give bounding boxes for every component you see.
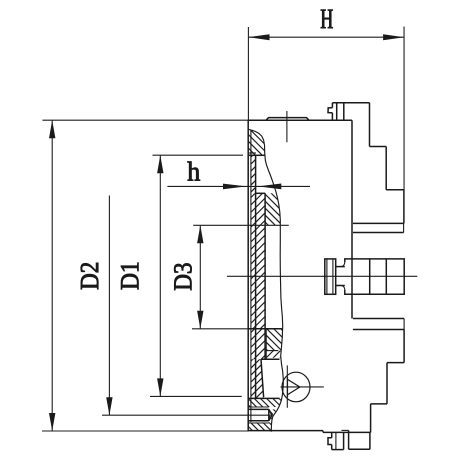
hub inner step line [266,350,278,352]
hub dimension arrowhead bottom [197,311,203,329]
dimension D1 line [108,196,110,416]
body right face upper [403,190,405,224]
body lower step 2 [371,403,387,405]
hub joint line [265,329,267,359]
bottom jaw notch top [342,429,349,431]
body OD band bump top [266,118,309,121]
dimension H line [249,36,404,38]
top jaw groove line 2 [343,103,345,120]
screw neck fillet top [341,262,345,267]
unlabeled hub dimension line [199,225,201,328]
flange hub top edge [248,328,282,330]
bottom bolt detail horizontal centre line [281,386,324,388]
unlabeled hub dimension extension line top [193,224,289,226]
top bolt hole centre line [286,111,288,142]
hatching: band above threaded hole [228,304,302,460]
dimension D2 arrowhead top [49,120,55,138]
body lower step 2 face [370,404,372,433]
label D3 [174,263,191,290]
dimension D2 extension line bottom [42,430,249,432]
top jaw top face [332,102,369,104]
chuck top face [249,119,352,121]
top jaw right face [369,103,371,147]
bolt detail cone triangle [288,379,300,394]
body lower step 1 face [386,363,388,404]
main horizontal centre line (chuck axis) [227,275,417,277]
jaw guide groove upper edge 2 [353,232,404,234]
jaw guide groove lower edge 1 [353,318,404,320]
screw head outline [325,259,336,294]
break line S-curve [249,130,283,432]
label D1 [121,263,138,290]
web step edge [256,192,266,194]
flange/body bottom step [322,431,324,433]
dimension H extension line left [247,27,249,120]
screw neck top [336,266,345,268]
bottom jaw left face lower [331,445,333,450]
bottom jaw insert left face [348,430,350,449]
flange bottom face [248,430,323,432]
hatching: sliver right of threaded hole [249,341,297,460]
label D2 [81,263,98,289]
bottom jaw insert right face [369,432,371,449]
flange back face inner line [250,130,252,422]
hatching: body broken-out section upper [245,118,300,299]
dimension D1 arrowhead bottom [106,397,112,415]
threaded mounting hole crest line top [249,406,269,408]
hatching: wall left of bolt cavity [152,339,357,418]
hub dimension arrowhead top [197,225,203,243]
bottom bolt detail vertical centre line [286,365,288,407]
dimension H extension line right [403,27,405,191]
body front step 1 face [385,147,387,190]
dimension D2 line [51,120,53,431]
dimension D3 extension line bottom [150,395,242,397]
flange bottom hub top edge [248,397,279,399]
body front step 2 top [386,189,404,191]
screw head slot line 2 [332,259,334,294]
hatching: flange top rim section [228,53,285,232]
top jaw left face lower [331,113,333,120]
label h [188,162,200,181]
dimension H arrowhead left [249,34,270,40]
rim chamfer line [249,152,256,154]
groove end upper [403,223,405,232]
unlabeled hub dimension extension line bottom [192,328,248,330]
screw neck fillet bottom [341,286,345,291]
label H [321,10,333,28]
jaw guide groove upper edge 1 [353,222,404,224]
bottom jaw insert bottom face [349,448,370,450]
flange back face [247,120,249,430]
screw body block [345,259,404,294]
hatching: band below threaded hole [228,338,292,460]
drill point cone [269,409,272,420]
screw body joint line 2 [385,259,387,294]
dimension D2 arrowhead bottom [49,413,55,431]
dimension D2 extension line top [42,119,248,121]
dimension D3 arrowhead bottom [157,378,163,396]
threaded mounting hole crest line bottom [249,422,269,424]
register recess top edge [249,154,265,156]
threaded hole end [268,409,270,420]
hatching: body hub band right [246,252,303,421]
bolt detail cone base line [287,377,289,397]
bottom jaw groove line [335,432,337,449]
dimension D3 arrowhead top [157,155,163,173]
dimension D1 extension line / bolt hole centre line [102,414,272,416]
screw body joint line 1 [369,259,371,294]
hatching: register wall strip [153,135,350,213]
body lower step 1 [387,362,404,364]
body right face lower [403,330,405,363]
top jaw tongue tab [328,108,332,113]
jaw guide groove lower edge 2 [353,329,404,331]
bolt cavity top edge [261,358,280,360]
dimension D3 extension line top [153,154,244,156]
body bottom face [323,431,371,433]
top jaw groove line 1 [336,103,338,120]
screw head slot line 1 [326,259,328,294]
screw neck bottom [336,285,345,287]
bottom jaw bottom face [332,449,344,451]
flange web front face [264,193,266,359]
dimension h line left part [167,185,310,187]
register recess floor [255,155,257,398]
hatching: flange web [55,173,453,348]
groove end lower [403,319,405,330]
bottom jaw left face upper [331,432,333,437]
bolt detail circle [282,372,310,402]
bottom jaw right face [343,432,345,449]
body front face [351,120,353,318]
threaded hole bottom edge [249,420,269,422]
dimension H arrowhead right [383,34,404,40]
hatching: hub strip below [197,331,342,378]
hatching: flange hub band left [160,309,356,380]
bottom jaw tongue tab [328,438,332,445]
dimension h arrowhead right (pointing left) [258,184,282,190]
body front step 1 top [370,146,387,148]
dimension h arrowhead left (pointing right) [223,184,246,190]
threaded hole top edge [249,408,269,410]
top jaw left face upper [331,103,333,108]
dimension D3 line [159,155,161,396]
bolt cavity left edge [261,359,264,397]
